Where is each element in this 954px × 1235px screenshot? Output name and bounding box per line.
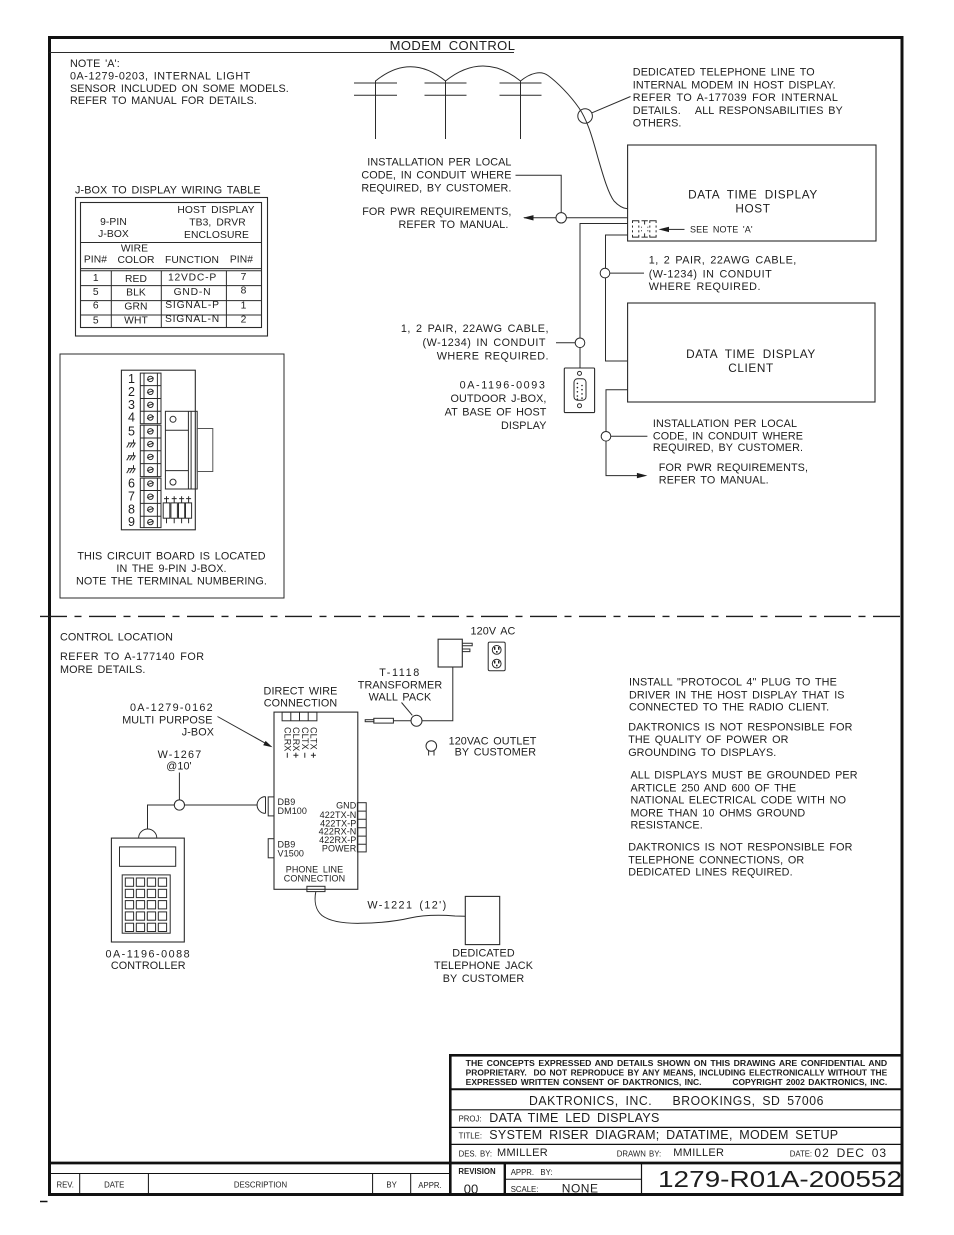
svg-text:DATA TIME DISPLAY: DATA TIME DISPLAY (686, 347, 816, 361)
DB9 V1500 port (268, 839, 304, 859)
9-pin j-box circuit board figure frame (60, 354, 284, 598)
svg-text:INSTALL "PROTOCOL 4" PLUG TO T: INSTALL "PROTOCOL 4" PLUG TO THE (629, 677, 837, 689)
confidentiality text (466, 1059, 888, 1087)
svg-text:APPR.: APPR. (418, 1181, 441, 1190)
terminal block group 2 (pin 5 + grounds) (140, 425, 161, 476)
svg-text:6: 6 (128, 477, 135, 491)
telephone pole 3 (500, 81, 542, 140)
controller dome (139, 829, 157, 838)
svg-text:7: 7 (241, 272, 247, 283)
svg-text:BY CUSTOMER: BY CUSTOMER (455, 747, 537, 759)
svg-text:2: 2 (128, 385, 135, 399)
svg-text:5: 5 (128, 424, 135, 438)
svg-text:CLTX: CLTX (300, 727, 310, 750)
j-box top terminal strip (282, 712, 317, 721)
cable A host to outdoor j-box (580, 224, 628, 369)
svg-text:OTHERS.: OTHERS. (633, 118, 682, 130)
svg-text:POWER: POWER (322, 843, 357, 853)
phone line connector (307, 886, 325, 891)
svg-text:AT BASE OF HOST: AT BASE OF HOST (445, 407, 547, 419)
svg-text:INSTALLATION PER LOCAL: INSTALLATION PER LOCAL (653, 418, 797, 430)
svg-text:1, 2 PAIR, 22AWG CABLE,: 1, 2 PAIR, 22AWG CABLE, (649, 254, 797, 266)
outdoor j-box DB9 wallplate (564, 368, 594, 413)
client pwr arrowhead (637, 473, 648, 478)
svg-text:OUTDOOR J-BOX,: OUTDOOR J-BOX, (451, 393, 547, 405)
svg-text:NOTE THE TERMINAL NUMBERING.: NOTE THE TERMINAL NUMBERING. (76, 576, 267, 588)
svg-text:SENSOR INCLUDED ON SOME MODELS: SENSOR INCLUDED ON SOME MODELS. (70, 83, 289, 95)
svg-text:BLK: BLK (126, 288, 146, 299)
leader to j-box with arrow (218, 717, 273, 748)
svg-text:MMILLER: MMILLER (673, 1147, 724, 1159)
transformer label (358, 667, 443, 704)
svg-text:MORE THAN 10 OHMS GROUND: MORE THAN 10 OHMS GROUND (631, 807, 806, 819)
svg-text:GND: GND (336, 800, 357, 810)
svg-text:REV.: REV. (56, 1181, 73, 1190)
svg-text:THE CONCEPTS EXPRESSED AND DET: THE CONCEPTS EXPRESSED AND DETAILS SHOWN… (466, 1059, 888, 1068)
section divider dashed line (40, 615, 901, 617)
see note A callout (659, 225, 753, 235)
svg-text:CLIENT: CLIENT (728, 361, 774, 375)
svg-text:MORE DETAILS.: MORE DETAILS. (60, 664, 146, 676)
svg-text:REQUIRED, BY CUSTOMER.: REQUIRED, BY CUSTOMER. (653, 442, 803, 454)
svg-text:DATA TIME LED DISPLAYS: DATA TIME LED DISPLAYS (489, 1111, 659, 1125)
cable A label (401, 323, 549, 363)
balloon client conduit (601, 432, 647, 442)
svg-text:GND-N: GND-N (174, 287, 212, 298)
strip labels (56, 1180, 441, 1190)
phone line connection label (284, 864, 346, 883)
transformer cord (422, 667, 453, 721)
svg-text:ENCLOSURE: ENCLOSURE (184, 230, 249, 241)
svg-text:TELEPHONE JACK: TELEPHONE JACK (434, 960, 534, 972)
svg-text:1279-R01A-200552: 1279-R01A-200552 (658, 1166, 902, 1192)
resistor network (163, 496, 191, 523)
DB9 DM100 port (268, 797, 307, 816)
svg-text:(W-1234) IN CONDUIT: (W-1234) IN CONDUIT (423, 337, 546, 349)
svg-text:DES. BY:: DES. BY: (459, 1149, 493, 1158)
svg-text:RESISTANCE.: RESISTANCE. (631, 820, 703, 832)
svg-text:J-BOX: J-BOX (98, 229, 129, 240)
svg-text:SCALE:: SCALE: (511, 1185, 539, 1194)
controller keypad (122, 875, 170, 933)
svg-text:PROPRIETARY. DO NOT REPRODUCE: PROPRIETARY. DO NOT REPRODUCE BY ANY MEA… (466, 1068, 888, 1077)
svg-text:PIN#: PIN# (230, 255, 253, 266)
client conduit note (653, 418, 803, 454)
svg-text:CLRX: CLRX (291, 727, 301, 751)
group 2 screws (147, 429, 154, 473)
ground symbol pin 6a (127, 440, 136, 448)
svg-text:J-BOX TO DISPLAY WIRING TABLE: J-BOX TO DISPLAY WIRING TABLE (75, 184, 261, 196)
svg-text:5: 5 (93, 287, 99, 298)
revision history strip (49, 1174, 450, 1195)
svg-text:WALL PACK: WALL PACK (369, 692, 432, 704)
svg-text:2: 2 (241, 315, 247, 326)
svg-text:DIRECT WIRE: DIRECT WIRE (264, 685, 338, 697)
client conduit/pwr wire (606, 390, 638, 476)
transformer prongs (462, 643, 472, 651)
terminal numbers (128, 372, 135, 529)
svg-text:REFER TO A-177039 FOR INTERNAL: REFER TO A-177039 FOR INTERNAL (633, 92, 839, 104)
svg-text:BY: BY (386, 1180, 397, 1189)
svg-text:ALL DISPLAYS MUST BE GROUNDED: ALL DISPLAYS MUST BE GROUNDED PER (631, 770, 858, 782)
leader installation note to pwr line (516, 175, 562, 213)
svg-text:CONNECTION: CONNECTION (284, 874, 346, 884)
D-sub connector on board (165, 411, 212, 489)
svg-text:DATE:: DATE: (790, 1149, 812, 1158)
svg-text:SIGNAL-N: SIGNAL-N (165, 314, 220, 325)
svg-text:W-1221 (12'): W-1221 (12') (367, 899, 447, 911)
direct wire connection label (264, 685, 338, 709)
svg-text:FOR PWR REQUIREMENTS,: FOR PWR REQUIREMENTS, (362, 206, 511, 218)
svg-text:1, 2 PAIR, 22AWG CABLE,: 1, 2 PAIR, 22AWG CABLE, (401, 323, 549, 335)
svg-text:DATA TIME DISPLAY: DATA TIME DISPLAY (688, 187, 818, 201)
corner tick (40, 1201, 48, 1203)
svg-text:V1500: V1500 (278, 849, 305, 859)
svg-text:CONNECTION: CONNECTION (264, 698, 338, 710)
svg-text:COLOR: COLOR (117, 255, 154, 266)
svg-text:TRANSFORMER: TRANSFORMER (358, 680, 443, 692)
svg-text:CONNECTED TO THE RADIO CLIENT.: CONNECTED TO THE RADIO CLIENT. (629, 702, 829, 714)
svg-text:APPR. BY:: APPR. BY: (511, 1168, 553, 1177)
svg-text:NONE: NONE (562, 1182, 599, 1196)
svg-text:REFER TO A-177140 FOR: REFER TO A-177140 FOR (60, 651, 205, 663)
svg-text:NOTE 'A':: NOTE 'A': (70, 58, 120, 70)
svg-text:DRIVER IN THE HOST DISPLAY THA: DRIVER IN THE HOST DISPLAY THAT IS (629, 689, 845, 701)
terminal block group 1 (pins 1-4) (140, 373, 161, 424)
svg-text:TB3, DRVR: TB3, DRVR (189, 218, 246, 229)
daktronics power note (628, 721, 852, 759)
title block frame (450, 1055, 902, 1194)
cable B host to client (606, 235, 628, 361)
pwr line with arrow to host (523, 215, 628, 220)
svg-text:WIRE: WIRE (121, 243, 148, 254)
svg-text:GRN: GRN (124, 302, 147, 313)
svg-text:1: 1 (93, 273, 99, 284)
telephone note (628, 842, 852, 879)
balloon W-1267 (174, 773, 184, 811)
svg-text:TELEPHONE CONNECTIONS, OR: TELEPHONE CONNECTIONS, OR (628, 854, 804, 866)
svg-text:DEDICATED TELEPHONE LINE TO: DEDICATED TELEPHONE LINE TO (633, 67, 815, 79)
svg-text:REFER TO MANUAL.: REFER TO MANUAL. (659, 475, 769, 487)
svg-text:DEDICATED LINES REQUIRED.: DEDICATED LINES REQUIRED. (628, 867, 792, 879)
svg-text:EXPRESSED WRITTEN CONSENT OF D: EXPRESSED WRITTEN CONSENT OF DAKTRONICS,… (466, 1078, 888, 1087)
svg-text:12VDC-P: 12VDC-P (168, 272, 217, 283)
terminal labels (319, 800, 357, 853)
svg-text:BY CUSTOMER: BY CUSTOMER (443, 973, 525, 985)
svg-text:CONTROLLER: CONTROLLER (111, 960, 186, 972)
svg-text:DEDICATED: DEDICATED (452, 948, 515, 960)
balloon on pwr line (556, 213, 566, 223)
svg-text:DAKTRONICS, INC. BROOKINGS,: DAKTRONICS, INC. BROOKINGS, SD 57006 (529, 1093, 824, 1108)
svg-text:@10': @10' (166, 761, 191, 773)
protocol 4 note (629, 677, 845, 714)
svg-text:SIGNAL-P: SIGNAL-P (165, 300, 219, 311)
client display box (628, 303, 875, 402)
120V outlet (488, 642, 505, 671)
svg-text:GROUNDING TO DISPLAYS.: GROUNDING TO DISPLAYS. (628, 747, 776, 759)
cable B label (649, 254, 797, 293)
pwr requirements note (host) (362, 206, 511, 231)
svg-text:0A-1196-0088: 0A-1196-0088 (105, 948, 191, 960)
telephone jack label (434, 948, 534, 985)
note A (70, 58, 289, 107)
svg-text:0A-1279-0162: 0A-1279-0162 (130, 702, 214, 714)
svg-text:REFER TO MANUAL.: REFER TO MANUAL. (399, 219, 509, 231)
controller body (111, 838, 184, 942)
svg-text:9: 9 (128, 515, 135, 529)
svg-text:9-PIN: 9-PIN (100, 217, 127, 228)
svg-text:REVISION: REVISION (458, 1167, 496, 1176)
svg-text:CONTROL LOCATION: CONTROL LOCATION (60, 632, 173, 644)
wiring table (76, 198, 268, 337)
svg-text:(W-1234) IN CONDUIT: (W-1234) IN CONDUIT (649, 268, 772, 280)
circuit board (121, 370, 195, 530)
multi purpose j-box label (122, 702, 214, 738)
client pwr note (659, 462, 808, 487)
svg-text:DESCRIPTION: DESCRIPTION (234, 1181, 287, 1190)
120VAC outlet by customer label (449, 735, 537, 758)
balloon on telephone wire (578, 97, 631, 124)
ground symbol pin 6c (127, 465, 136, 473)
svg-text:00: 00 (464, 1181, 478, 1196)
svg-text:J-BOX: J-BOX (182, 727, 214, 739)
svg-text:CODE, IN CONDUIT WHERE: CODE, IN CONDUIT WHERE (653, 430, 803, 442)
controller display (120, 847, 176, 866)
svg-text:SYSTEM RISER DIAGRAM; DATATIME: SYSTEM RISER DIAGRAM; DATATIME, MODEM SE… (489, 1128, 838, 1142)
telephone pole 2 (425, 81, 467, 140)
svg-text:WHERE REQUIRED.: WHERE REQUIRED. (649, 281, 761, 293)
svg-text:PROJ:: PROJ: (459, 1114, 482, 1123)
polarity marks - + - + (287, 753, 316, 758)
svg-text:REQUIRED, BY CUSTOMER.: REQUIRED, BY CUSTOMER. (361, 182, 511, 194)
svg-text:120V AC: 120V AC (471, 626, 516, 638)
balloon cable A (556, 338, 585, 348)
circuit board caption (76, 550, 267, 587)
svg-text:THE QUALITY OF POWER OR: THE QUALITY OF POWER OR (628, 734, 788, 746)
W-1267 label (158, 749, 203, 773)
svg-text:CODE, IN CONDUIT WHERE: CODE, IN CONDUIT WHERE (361, 169, 511, 181)
svg-text:1: 1 (128, 372, 135, 386)
mating D-shell connector (257, 797, 265, 814)
svg-text:DAKTRONICS IS NOT RESPONSIBLE: DAKTRONICS IS NOT RESPONSIBLE FOR (628, 842, 852, 854)
controller label (105, 948, 191, 972)
svg-text:0A-1279-0203, INTERNAL LIGHT: 0A-1279-0203, INTERNAL LIGHT (70, 71, 251, 83)
svg-text:RED: RED (125, 274, 147, 285)
outdoor j-box label (445, 380, 547, 433)
grounding note (631, 770, 858, 832)
svg-text:6: 6 (93, 301, 99, 312)
svg-text:FUNCTION: FUNCTION (165, 255, 219, 266)
svg-text:NATIONAL ELECTRICAL CODE WITH: NATIONAL ELECTRICAL CODE WITH NO (631, 795, 847, 807)
controller wire (148, 805, 258, 829)
terminal block group 3 (pins 6-9) (140, 478, 161, 527)
svg-text:HOST: HOST (735, 201, 770, 215)
svg-text:5: 5 (93, 315, 99, 326)
svg-text:MODEM CONTROL: MODEM CONTROL (390, 38, 516, 53)
svg-text:CLRX: CLRX (283, 727, 293, 751)
svg-text:WHT: WHT (124, 316, 148, 327)
svg-text:DISPLAY: DISPLAY (501, 420, 547, 432)
svg-text:DRAWN BY:: DRAWN BY: (617, 1149, 661, 1158)
telephone pole 1 (354, 81, 397, 140)
svg-text:HOST DISPLAY: HOST DISPLAY (177, 205, 254, 216)
svg-text:02 DEC 03: 02 DEC 03 (814, 1146, 887, 1160)
svg-text:MULTI PURPOSE: MULTI PURPOSE (122, 714, 212, 726)
svg-text:TITLE:: TITLE: (459, 1132, 482, 1141)
j-box right terminal column (357, 803, 366, 852)
svg-text:CLTX: CLTX (309, 727, 319, 750)
balloon T-1118 (402, 703, 423, 727)
multi purpose j-box (274, 712, 358, 889)
plug barrel (365, 718, 411, 723)
svg-text:FOR PWR REQUIREMENTS,: FOR PWR REQUIREMENTS, (659, 462, 808, 474)
svg-text:PIN#: PIN# (84, 255, 107, 266)
group 3 screws (147, 481, 154, 525)
svg-text:THIS CIRCUIT BOARD IS LOCATED: THIS CIRCUIT BOARD IS LOCATED (77, 550, 265, 562)
svg-text:0A-1196-0093: 0A-1196-0093 (460, 380, 547, 392)
svg-text:SEE NOTE 'A': SEE NOTE 'A' (690, 225, 753, 235)
telephone wire (376, 66, 628, 209)
svg-text:T-1118: T-1118 (379, 667, 421, 679)
svg-text:4: 4 (128, 411, 135, 425)
phone cord W-1221 (315, 892, 465, 924)
dedicated telephone jack box (465, 896, 499, 944)
svg-text:8: 8 (241, 286, 247, 297)
dedicated telephone line note (633, 67, 843, 130)
svg-text:DATE: DATE (104, 1180, 124, 1189)
svg-text:INTERNAL MODEM IN HOST DISPLAY: INTERNAL MODEM IN HOST DISPLAY. (633, 79, 836, 91)
svg-text:W-1267: W-1267 (158, 749, 203, 761)
svg-text:WHERE REQUIRED.: WHERE REQUIRED. (437, 351, 549, 363)
light sensor symbol (633, 221, 657, 237)
svg-text:REFER TO MANUAL FOR DETAILS.: REFER TO MANUAL FOR DETAILS. (70, 95, 257, 107)
svg-text:INSTALLATION PER LOCAL: INSTALLATION PER LOCAL (367, 156, 511, 168)
balloon cable B (600, 268, 644, 278)
control location note (60, 632, 205, 676)
ground symbol pin 6b (127, 452, 136, 460)
outlet ground symbol (426, 741, 437, 756)
svg-text:DAKTRONICS IS NOT RESPONSIBLE: DAKTRONICS IS NOT RESPONSIBLE FOR (628, 721, 852, 733)
svg-text:ARTICLE 250 AND 600 OF THE: ARTICLE 250 AND 600 OF THE (631, 782, 797, 794)
title underline (50, 52, 515, 54)
svg-text:DETAILS. ALL RESPONSABILITIE: DETAILS. ALL RESPONSABILITIES BY (633, 105, 843, 117)
group 1 screws (147, 376, 154, 420)
host display box (628, 145, 876, 241)
svg-text:IN THE 9-PIN J-BOX.: IN THE 9-PIN J-BOX. (116, 563, 226, 575)
transformer wall pack (438, 639, 462, 667)
svg-text:DM100: DM100 (278, 806, 308, 816)
svg-text:120VAC OUTLET: 120VAC OUTLET (449, 735, 537, 747)
installation per local code note (host) (361, 156, 511, 194)
svg-text:1: 1 (241, 301, 247, 312)
title block row lines (49, 1089, 903, 1195)
svg-text:MMILLER: MMILLER (497, 1147, 548, 1159)
